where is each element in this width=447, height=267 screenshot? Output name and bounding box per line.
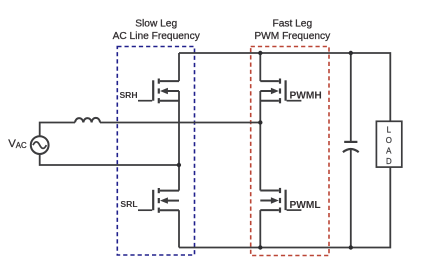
svg-text:L: L (387, 125, 392, 134)
svg-text:AC Line Frequency: AC Line Frequency (113, 31, 201, 42)
svg-text:O: O (386, 136, 392, 145)
svg-text:PWML: PWML (290, 200, 321, 211)
svg-text:Slow Leg: Slow Leg (135, 19, 177, 30)
svg-text:D: D (386, 157, 392, 166)
svg-text:PWMH: PWMH (290, 90, 322, 101)
svg-text:SRL: SRL (120, 199, 137, 209)
svg-text:Fast Leg: Fast Leg (272, 19, 312, 30)
svg-text:SRH: SRH (119, 90, 137, 100)
svg-text:PWM Frequency: PWM Frequency (254, 31, 331, 42)
svg-text:A: A (386, 147, 392, 156)
